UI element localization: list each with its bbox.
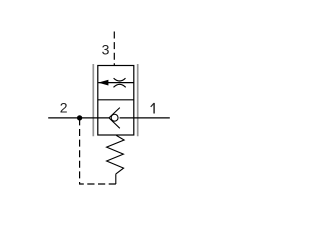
junction dot [77, 115, 82, 120]
svg-text:3: 3 [102, 41, 110, 57]
svg-text:2: 2 [60, 99, 68, 115]
label port 1 [151, 103, 154, 114]
wire: port 2 line (left) [48, 117, 109, 119]
wire: port 1 line (right) [120, 117, 170, 119]
flow direction arrowhead [98, 80, 108, 86]
throttle restriction lower arc [114, 84, 126, 87]
throttle restriction upper arc [114, 78, 126, 81]
spring [107, 135, 125, 174]
spring-to-drain stub [115, 174, 117, 184]
throttle flow line [98, 82, 134, 84]
cartridge housing line right (gray) [137, 64, 139, 136]
check valve seat [109, 108, 120, 129]
cartridge housing line left (gray) [92, 64, 94, 136]
wire: pilot line port 3 (dashed) [113, 32, 115, 66]
wire: pilot drain dashed line horizontal [79, 183, 116, 185]
wire: pilot drain dashed line [79, 118, 81, 184]
check valve ball [111, 114, 118, 121]
divider line between throttle and check sections [98, 99, 134, 101]
valve body envelope [98, 66, 134, 136]
